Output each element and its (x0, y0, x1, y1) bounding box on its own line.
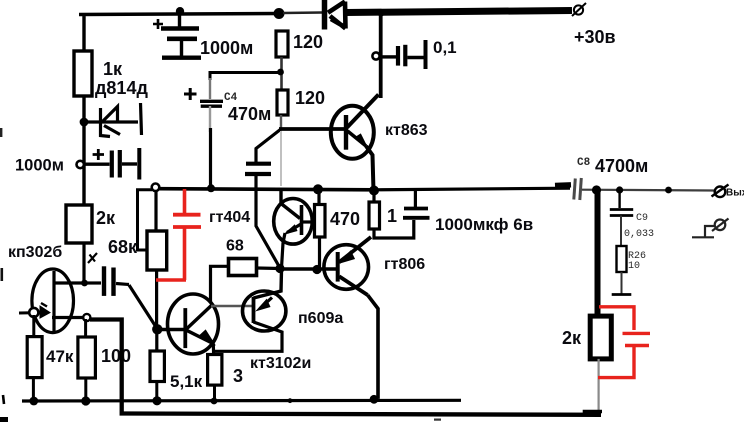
wire left column (82, 96, 85, 205)
wire to diode (283, 11, 322, 14)
svg-text:2к: 2к (562, 328, 582, 348)
node 470 bottom (312, 265, 321, 274)
svg-text:100: 100 (101, 346, 131, 366)
node D1 (80, 118, 89, 127)
transistor гт404 (274, 189, 316, 268)
node gnd 5,1к (152, 396, 161, 405)
svg-text:5,1к: 5,1к (170, 372, 203, 391)
node top A (176, 7, 184, 15)
resistor R7 68к (138, 190, 153, 250)
wire rail2 right end (583, 410, 602, 414)
resistor R8 47к (32, 315, 35, 337)
node gnd small (288, 398, 293, 403)
svg-text:1000мкф 6в: 1000мкф 6в (435, 215, 533, 234)
mark left edge 2 (1, 268, 4, 281)
capacitor bootstrap (245, 164, 271, 174)
node between 120 (277, 69, 284, 76)
mark corner (0, 417, 8, 422)
wire кт3102и collector to п609а base (211, 305, 253, 307)
svg-text:кп302б: кп302б (8, 244, 62, 261)
wire bootstrap cap down + diagonal to node (256, 174, 280, 268)
wire +30в rail thick (346, 11, 572, 13)
zener д814д (88, 103, 142, 137)
capacitor 1000мкф 6в (403, 191, 430, 218)
svg-text:п609а: п609а (298, 310, 343, 327)
resistor R6 1 (372, 191, 375, 202)
node gnd 3 (211, 398, 218, 405)
capacitor C4 470м (184, 88, 223, 106)
resistor R11 5,1к (155, 330, 158, 351)
node diode/collector (377, 9, 384, 16)
svg-text:1к: 1к (103, 59, 123, 79)
resistor R26 10 (617, 246, 627, 272)
svg-text:1000м: 1000м (200, 38, 253, 58)
node C9 tap (616, 186, 623, 193)
svg-text:кт3102и: кт3102и (250, 355, 311, 372)
svg-text:гт806: гт806 (384, 256, 425, 273)
node top B (274, 8, 285, 19)
resistor R12 3 (208, 355, 222, 386)
svg-text:47к: 47к (46, 347, 74, 366)
svg-text:0,033: 0,033 (624, 229, 654, 240)
svg-text:0,1: 0,1 (433, 38, 457, 57)
svg-text:470м: 470м (228, 104, 271, 124)
wire 2к bottom (82, 243, 85, 284)
svg-text:д814д: д814д (95, 78, 148, 98)
capacitor red mod 2 (598, 307, 650, 378)
mark left edge 3 (0, 128, 2, 137)
svg-text:1: 1 (387, 206, 397, 226)
mark bottom tick (434, 419, 441, 421)
node out small (665, 187, 672, 194)
mark adjust x (88, 253, 97, 263)
wire output rail (158, 189, 374, 190)
wire thick 2к lead (595, 190, 601, 317)
wire faint erased (280, 131, 282, 186)
diode VD1 (325, 0, 346, 30)
svg-text:120: 120 (295, 88, 325, 108)
terminal Вых (712, 185, 729, 198)
transistor кт3102и (160, 294, 219, 354)
node gnd 47к (29, 397, 38, 406)
svg-text:Вых: Вых (726, 188, 744, 199)
node кт863 emitter/rail (369, 186, 379, 196)
svg-text:120: 120 (293, 32, 323, 52)
wire base node to гт806 (280, 267, 337, 270)
svg-text:10: 10 (628, 261, 640, 272)
node driver (275, 264, 284, 273)
node input/base (152, 324, 162, 334)
node 470/rail (313, 184, 323, 194)
node C4/rail (207, 184, 215, 192)
svg-text:C4: C4 (224, 92, 238, 104)
wire C4 bottom to rail (209, 106, 211, 132)
resistor R3 120 (276, 31, 288, 57)
node JFET source (83, 314, 90, 321)
resistor R1 1к (74, 51, 92, 96)
wire junction to кт863 base (280, 115, 282, 129)
capacitor red mod 1 (156, 189, 201, 280)
svg-text:68к: 68к (108, 237, 138, 257)
capacitor input coupling (87, 266, 129, 296)
svg-text:470: 470 (330, 209, 360, 229)
svg-text:кт863: кт863 (385, 122, 428, 139)
terminal +30в (572, 3, 586, 16)
wire feedback (90, 320, 601, 415)
wire ground rail (22, 399, 461, 403)
svg-text:3: 3 (233, 366, 243, 386)
transistor п609а (214, 270, 286, 351)
resistor R13 2к (590, 316, 611, 359)
node JFET drain (81, 280, 88, 287)
wire diagonal cap to node (129, 285, 157, 329)
resistor R10 68 (211, 266, 229, 303)
svg-text:2к: 2к (96, 208, 116, 228)
wire R26 bottom + end bar (621, 272, 623, 294)
resistor R9 100 (84, 319, 87, 337)
wire to C4 (210, 73, 280, 81)
resistor R4 120 (second) (277, 90, 288, 115)
capacitor C8 4700м (555, 178, 581, 200)
svg-text:4700м: 4700м (595, 156, 648, 176)
wire collector up (379, 13, 383, 98)
node gnd 100 (81, 396, 90, 405)
mark left edge (3, 395, 4, 404)
svg-text:гт404: гт404 (209, 209, 250, 226)
capacitor C1 1000м (top) (153, 14, 201, 58)
svg-text:C9: C9 (636, 213, 648, 224)
transistor кт863 (331, 95, 379, 192)
capacitor 0,1 (372, 40, 425, 69)
svg-text:+30в: +30в (574, 27, 616, 47)
wire top rail thin left (79, 14, 278, 53)
wire output after C8 (582, 189, 714, 192)
node C8 out (592, 185, 601, 194)
transistor гт806 (324, 237, 378, 399)
wire between 120s (280, 57, 283, 89)
wire diagonal to bootstrap cap (256, 129, 281, 162)
svg-text:C8: C8 (577, 157, 591, 169)
JFET кп302б (19, 269, 88, 333)
capacitor 1000м (left, horizontal) (77, 148, 140, 180)
wire 2к bottom gray (597, 359, 599, 412)
resistor R2 2к (66, 205, 92, 243)
capacitor C9 0,033 (610, 190, 633, 246)
svg-text:1000м: 1000м (15, 157, 64, 175)
resistor R5 470 (317, 191, 320, 205)
node gnd гт806 (370, 395, 379, 404)
terminal gnd flag (692, 219, 729, 238)
svg-text:68: 68 (226, 238, 244, 255)
terminal open circle rail left (152, 184, 160, 192)
